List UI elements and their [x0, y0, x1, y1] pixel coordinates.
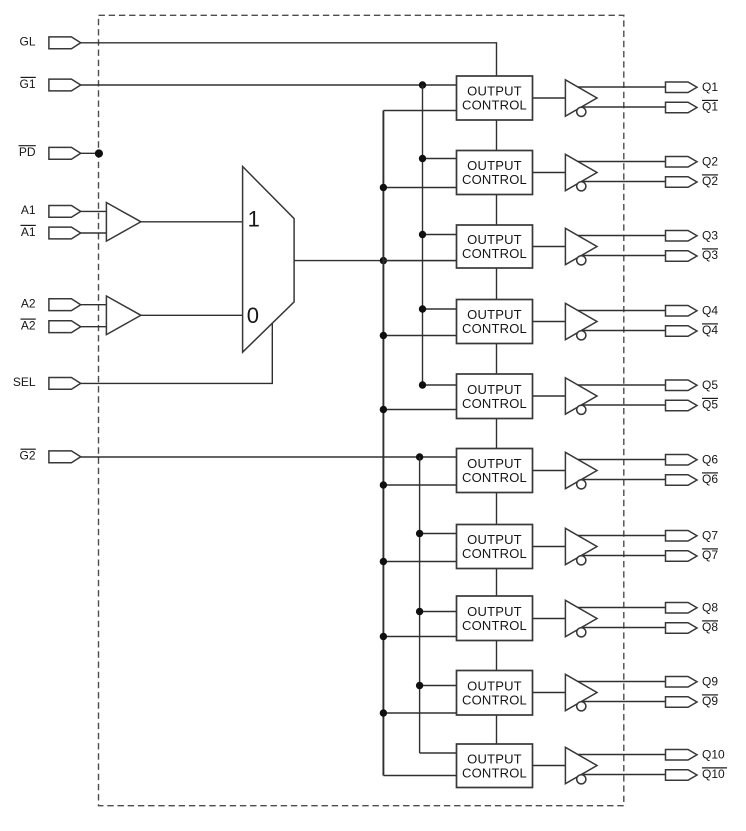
svg-text:Q1: Q1 — [702, 80, 718, 94]
svg-text:A1: A1 — [21, 203, 36, 217]
svg-text:Q10: Q10 — [702, 767, 725, 781]
wire clock bus to OUTPUT CONTROL 8 — [383, 636, 456, 638]
junction gate bus row 3 — [419, 231, 426, 238]
junction clock bus row 7 — [380, 558, 387, 565]
inverter bubble Q8 complement — [577, 628, 586, 637]
wire Q3 — [578, 235, 666, 237]
wire chain OUTPUT CONTROL 7 to 8 — [496, 569, 498, 597]
svg-text:OUTPUT: OUTPUT — [467, 604, 522, 619]
input pin A2 — [49, 299, 81, 311]
wire Q3 complement — [581, 255, 665, 257]
svg-text:CONTROL: CONTROL — [462, 172, 527, 187]
svg-text:OUTPUT: OUTPUT — [467, 232, 522, 247]
inverter bubble Q10 complement — [577, 775, 586, 784]
svg-text:SEL: SEL — [13, 375, 36, 389]
input buffer A2 — [106, 296, 140, 335]
wire G2 to OUTPUT CONTROL 6 — [81, 456, 457, 458]
wire OUTPUT CONTROL 2 to buffer — [533, 172, 566, 174]
svg-text:GL: GL — [19, 35, 35, 49]
wire clock bus to OUTPUT CONTROL 7 — [383, 561, 456, 563]
inverter bubble Q1 complement — [577, 107, 586, 116]
wire chain OUTPUT CONTROL 5 to 6 — [496, 419, 498, 449]
output pin Q9 — [666, 676, 698, 687]
junction G2/bus — [416, 453, 423, 460]
wire Q7 complement — [581, 555, 665, 557]
svg-text:Q2: Q2 — [702, 174, 718, 188]
svg-text:Q3: Q3 — [702, 229, 718, 243]
output control block 10 — [457, 744, 533, 788]
wire gate bus to OUTPUT CONTROL 2 — [423, 158, 457, 160]
svg-text:CONTROL: CONTROL — [462, 765, 527, 780]
output buffer 7 — [565, 528, 597, 564]
junction gate bus row 5 — [419, 381, 426, 388]
output control block 3 — [457, 225, 533, 268]
wire clock bus to OUTPUT CONTROL 9 — [383, 712, 456, 714]
wire Q9 complement — [581, 701, 665, 703]
output pin Q5 — [666, 380, 698, 391]
svg-text:Q8: Q8 — [702, 620, 718, 634]
wire clock bus to OUTPUT CONTROL 4 — [383, 335, 456, 337]
inverter bubble Q6 complement — [577, 480, 586, 489]
wire OUTPUT CONTROL 10 to buffer — [533, 765, 566, 767]
wire Q4 complement — [581, 330, 665, 332]
output pin Q4 — [666, 305, 698, 316]
svg-text:CONTROL: CONTROL — [462, 618, 527, 633]
wire OUTPUT CONTROL 4 to buffer — [533, 321, 566, 323]
junction clock bus row 4 — [380, 332, 387, 339]
wire Q2 — [578, 161, 666, 163]
output buffer 6 — [565, 452, 597, 488]
svg-text:Q7: Q7 — [702, 529, 718, 543]
output control block 9 — [457, 671, 533, 716]
svg-text:Q3: Q3 — [702, 248, 718, 262]
wire gate bus to OUTPUT CONTROL 7 — [420, 533, 457, 535]
inverter bubble Q7 complement — [577, 556, 586, 565]
svg-text:CONTROL: CONTROL — [462, 396, 527, 411]
wire clock bus to OUTPUT CONTROL 5 — [383, 409, 456, 411]
wire mux output to clock bus — [294, 260, 456, 262]
output pin Q1 complement — [666, 102, 698, 113]
junction gate bus row 2 — [419, 155, 426, 162]
output buffer 10 — [565, 747, 597, 783]
svg-text:Q5: Q5 — [702, 398, 718, 412]
wire OUTPUT CONTROL 5 to buffer — [533, 395, 566, 397]
wire Q6 — [578, 459, 666, 461]
wire SEL to mux select — [81, 323, 273, 384]
inverter bubble Q4 complement — [577, 331, 586, 340]
junction gate bus row 4 — [419, 305, 426, 312]
wire PD to boundary — [81, 152, 99, 154]
wire OUTPUT CONTROL 6 to buffer — [533, 470, 566, 472]
input pin PD (active low) — [49, 147, 81, 159]
wire gate bus to OUTPUT CONTROL 3 — [423, 234, 457, 236]
junction clock bus row 8 — [380, 633, 387, 640]
wire clock bus to OUTPUT CONTROL 6 — [383, 484, 456, 486]
inverter bubble Q3 complement — [577, 256, 586, 265]
svg-text:CONTROL: CONTROL — [462, 98, 527, 113]
svg-text:A2: A2 — [21, 319, 36, 333]
wire Q9 — [578, 681, 666, 683]
output buffer 5 — [565, 378, 597, 414]
wire clock bus to OUTPUT CONTROL 2 — [383, 187, 456, 189]
junction gate bus row 7 — [416, 530, 423, 537]
input pin GL — [49, 37, 81, 49]
output pin Q1 — [666, 82, 698, 93]
wire clock bus to OUTPUT CONTROL 10 — [383, 775, 456, 777]
output pin Q6 complement — [666, 475, 698, 486]
wire chain OUTPUT CONTROL 1 to 2 — [496, 120, 498, 151]
junction G1/bus — [419, 81, 426, 88]
svg-text:OUTPUT: OUTPUT — [467, 532, 522, 547]
wire Q10 — [578, 754, 666, 756]
wire gate bus to OUTPUT CONTROL 4 — [423, 308, 457, 310]
svg-text:Q8: Q8 — [702, 601, 718, 615]
wire OUTPUT CONTROL 7 to buffer — [533, 546, 566, 548]
output pin Q3 — [666, 230, 698, 241]
svg-text:0: 0 — [247, 303, 259, 328]
wire A1 to input buffer — [81, 210, 107, 212]
svg-text:CONTROL: CONTROL — [462, 470, 527, 485]
wire chain OUTPUT CONTROL 9 to 10 — [496, 715, 498, 744]
junction clock bus row 6 — [380, 481, 387, 488]
device boundary (dashed box) — [99, 15, 624, 805]
output pin Q7 complement — [666, 551, 698, 562]
svg-text:Q7: Q7 — [702, 548, 718, 562]
input pin SEL — [49, 378, 81, 390]
svg-text:OUTPUT: OUTPUT — [467, 382, 522, 397]
input pin A1 complement — [49, 227, 81, 239]
output pin Q9 complement — [666, 697, 698, 708]
svg-text:CONTROL: CONTROL — [462, 692, 527, 707]
output control block 4 — [457, 300, 533, 344]
input pin A2 complement — [49, 321, 81, 333]
svg-text:A2: A2 — [21, 297, 36, 311]
wire chain OUTPUT CONTROL 4 to 5 — [496, 344, 498, 375]
output control block 8 — [457, 596, 533, 641]
wire OUTPUT CONTROL 1 to buffer — [533, 97, 566, 99]
output buffer 8 — [565, 600, 597, 636]
svg-text:OUTPUT: OUTPUT — [467, 307, 522, 322]
output pin Q10 complement — [666, 770, 698, 781]
junction PD — [95, 149, 103, 157]
output pin Q3 complement — [666, 251, 698, 262]
wire chain OUTPUT CONTROL 3 to 4 — [496, 268, 498, 300]
output pin Q4 complement — [666, 326, 698, 337]
output pin Q2 — [666, 156, 698, 167]
wire chain OUTPUT CONTROL 6 to 7 — [496, 493, 498, 525]
svg-text:Q9: Q9 — [702, 694, 718, 708]
input pin A1 — [49, 206, 81, 218]
inverter bubble Q2 complement — [577, 182, 586, 191]
svg-text:G1: G1 — [19, 77, 35, 91]
svg-text:CONTROL: CONTROL — [462, 546, 527, 561]
wire GL to output-control chain — [81, 43, 497, 76]
input pin G2 (active low) — [49, 451, 81, 463]
wire Q8 — [578, 607, 666, 609]
output control block 2 — [457, 151, 533, 195]
svg-text:Q6: Q6 — [702, 472, 718, 486]
svg-text:1: 1 — [248, 207, 260, 232]
output pin Q8 — [666, 602, 698, 613]
wire gate bus to OUTPUT CONTROL 9 — [420, 685, 457, 687]
output control block 7 — [457, 525, 533, 569]
junction clock bus row 5 — [380, 406, 387, 413]
wire buffer A1 to mux input 1 — [141, 221, 243, 223]
G1 gate bus (vertical) — [422, 85, 424, 385]
wire A2bar to input buffer — [81, 326, 107, 328]
wire gate bus to OUTPUT CONTROL 8 — [420, 611, 457, 613]
wire G1 to OUTPUT CONTROL 1 — [81, 84, 457, 86]
wire Q8 complement — [581, 627, 665, 629]
output buffer 9 — [565, 674, 597, 710]
wire Q4 — [578, 310, 666, 312]
svg-text:Q10: Q10 — [702, 748, 725, 762]
wire buffer A2 to mux input 0 — [141, 314, 243, 316]
junction clock bus row 9 — [380, 709, 387, 716]
output pin Q8 complement — [666, 623, 698, 634]
output control block 5 — [457, 374, 533, 419]
wire A1bar to input buffer — [81, 232, 107, 234]
svg-text:CONTROL: CONTROL — [462, 246, 527, 261]
mux U1 (2:1 multiplexer) — [243, 167, 295, 353]
svg-text:OUTPUT: OUTPUT — [467, 84, 522, 99]
junction clock bus row 2 — [380, 184, 387, 191]
wire gate bus to OUTPUT CONTROL 5 — [423, 384, 457, 386]
svg-text:Q1: Q1 — [702, 100, 718, 114]
wire Q5 complement — [581, 404, 665, 406]
wire OUTPUT CONTROL 3 to buffer — [533, 246, 566, 248]
input pin G1 (active low) — [49, 79, 81, 91]
output pin Q2 complement — [666, 177, 698, 188]
svg-text:Q5: Q5 — [702, 378, 718, 392]
wire clock bus to OUTPUT CONTROL 3 — [383, 260, 456, 262]
output pin Q10 — [666, 749, 698, 760]
svg-text:Q9: Q9 — [702, 675, 718, 689]
wire Q6 complement — [581, 479, 665, 481]
svg-text:Q2: Q2 — [702, 155, 718, 169]
svg-text:OUTPUT: OUTPUT — [467, 678, 522, 693]
svg-text:G2: G2 — [19, 449, 35, 463]
output buffer 4 — [565, 303, 597, 339]
clock distribution bus (vertical) — [382, 111, 384, 776]
svg-text:Q6: Q6 — [702, 453, 718, 467]
output control block 1 — [457, 76, 533, 120]
inverter bubble Q9 complement — [577, 702, 586, 711]
wire Q5 — [578, 384, 666, 386]
svg-text:Q4: Q4 — [702, 304, 718, 318]
G2 gate bus (vertical) — [419, 457, 421, 753]
svg-text:OUTPUT: OUTPUT — [467, 456, 522, 471]
wire Q1 complement — [581, 106, 665, 108]
svg-text:OUTPUT: OUTPUT — [467, 751, 522, 766]
junction mux/clock bus — [380, 257, 387, 264]
svg-text:OUTPUT: OUTPUT — [467, 158, 522, 173]
output buffer 1 — [565, 80, 597, 116]
svg-text:Q4: Q4 — [702, 323, 718, 337]
output pin Q5 complement — [666, 400, 698, 411]
wire OUTPUT CONTROL 9 to buffer — [533, 692, 566, 694]
inverter bubble Q5 complement — [577, 405, 586, 414]
output buffer 2 — [565, 154, 597, 190]
wire Q2 complement — [581, 181, 665, 183]
wire chain OUTPUT CONTROL 2 to 3 — [496, 195, 498, 226]
wire A2 to input buffer — [81, 304, 107, 306]
wire Q7 — [578, 535, 666, 537]
svg-text:A1: A1 — [21, 225, 36, 239]
wire Q1 — [578, 86, 666, 88]
svg-text:CONTROL: CONTROL — [462, 321, 527, 336]
svg-text:PD: PD — [19, 145, 36, 159]
wire OUTPUT CONTROL 8 to buffer — [533, 618, 566, 620]
wire gate bus to OUTPUT CONTROL 10 — [420, 752, 457, 754]
wire chain OUTPUT CONTROL 8 to 9 — [496, 641, 498, 671]
output buffer 3 — [565, 228, 597, 264]
junction gate bus row 8 — [416, 608, 423, 615]
output control block 6 — [457, 449, 533, 493]
wire Q10 complement — [581, 774, 665, 776]
output pin Q6 — [666, 454, 698, 465]
input buffer A1 — [106, 203, 140, 242]
wire clock bus to OUTPUT CONTROL 1 — [383, 110, 456, 112]
output pin Q7 — [666, 530, 698, 541]
junction gate bus row 9 — [416, 682, 423, 689]
